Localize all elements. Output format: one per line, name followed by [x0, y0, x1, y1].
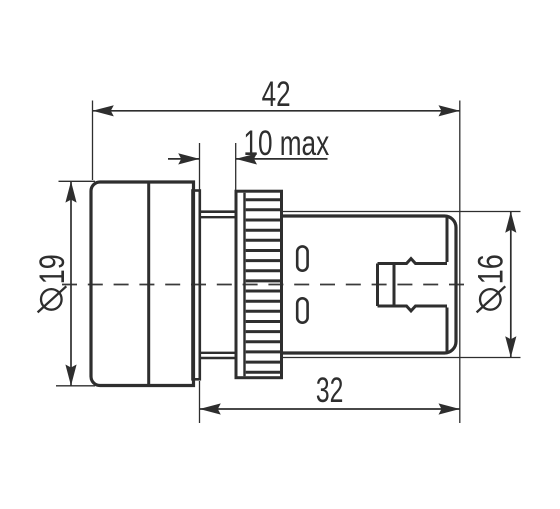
thread barrel top root line — [200, 216, 236, 218]
thread barrel bottom crest line — [200, 357, 236, 360]
svg-text:32: 32 — [316, 371, 344, 410]
vent slot lower — [297, 298, 307, 322]
body inner wall upper — [446, 218, 449, 263]
dim 10max line right tail — [236, 158, 328, 160]
d16 diameter symbol circle — [480, 289, 501, 310]
centerline (dash) — [62, 284, 471, 286]
dim 10max line left tail — [168, 158, 200, 160]
svg-text:10 max: 10 max — [243, 124, 329, 163]
arrow 42 right — [439, 105, 460, 116]
dim 32 extension line left — [199, 381, 201, 423]
thread barrel bottom root line — [200, 352, 236, 354]
arrow d19 bottom — [65, 365, 76, 386]
svg-text:42: 42 — [262, 75, 291, 114]
arrow d16 bottom — [505, 336, 516, 357]
dim d19 line — [70, 181, 72, 385]
svg-text:19: 19 — [33, 254, 72, 284]
dim 10max extension line left — [199, 143, 201, 190]
arrow 10max left (points right) — [178, 153, 199, 164]
arrow 32 right — [439, 403, 460, 414]
dim 42 extension line right — [459, 101, 461, 424]
terminal socket front wall — [376, 264, 379, 307]
d16 diameter symbol slash — [477, 286, 506, 312]
svg-text:16: 16 — [471, 254, 510, 284]
arrow 10max right (points left) — [236, 153, 257, 164]
terminal socket top edge with snap bump — [378, 259, 448, 264]
nut knurling stripes — [246, 200, 280, 373]
lens head outline — [91, 182, 194, 386]
terminal socket inner wall — [393, 264, 396, 307]
dim d19 extension line bottom — [56, 385, 95, 387]
body inner wall lower — [446, 308, 449, 352]
body outline — [282, 216, 457, 353]
d19 diameter symbol circle — [41, 289, 62, 310]
dim d16 line — [510, 212, 512, 358]
washer flange — [193, 191, 200, 380]
dim d19 extension line top — [59, 180, 96, 182]
arrow d16 top — [505, 212, 516, 233]
arrow 42 left — [93, 105, 114, 116]
dim 32 line — [200, 408, 460, 410]
knurled nut outline — [236, 191, 282, 378]
nut side band line — [243, 193, 245, 377]
dim 42 line — [93, 110, 460, 112]
d19 diameter symbol slash — [38, 286, 67, 312]
dim 10max extension line right — [235, 143, 237, 191]
dim d16 extension line bottom — [282, 357, 521, 359]
arrow d19 top — [65, 181, 76, 202]
dim d16 extension line top — [282, 211, 521, 213]
thread barrel top crest line — [200, 210, 236, 213]
dim 42 extension line left — [92, 101, 94, 181]
lens bezel divider — [147, 183, 150, 386]
vent slot upper — [297, 246, 307, 270]
terminal socket bottom edge with snap bump — [378, 306, 448, 311]
arrow 32 left — [200, 403, 221, 414]
